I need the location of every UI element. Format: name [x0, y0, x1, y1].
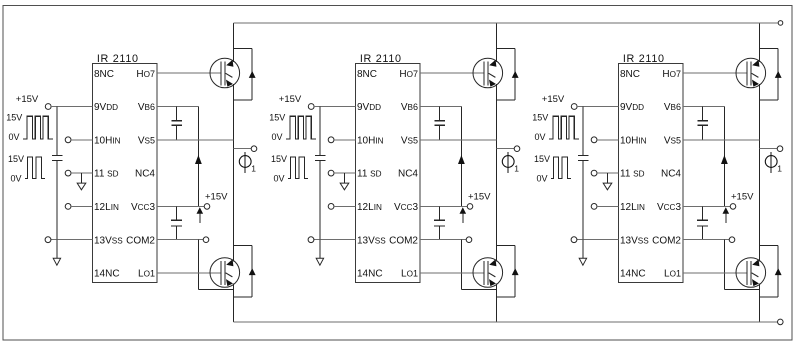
svg-text:12LIN: 12LIN [94, 202, 119, 213]
svg-text:13VSS: 13VSS [620, 235, 649, 246]
svg-text:15V: 15V [8, 154, 24, 164]
pin 11 SD label [620, 169, 645, 180]
pin 1 LO label [664, 269, 681, 280]
svg-text:12LIN: 12LIN [357, 202, 382, 213]
svg-text:VCC3: VCC3 [394, 202, 419, 213]
svg-text:0V: 0V [535, 132, 546, 142]
pin 4 NC label [135, 169, 155, 180]
svg-text:HO7: HO7 [399, 69, 418, 80]
wire emitter to DC- bus [232, 297, 234, 322]
pin 14 NC label [94, 269, 120, 280]
svg-text:8NC: 8NC [620, 69, 640, 80]
svg-text:10HIN: 10HIN [94, 135, 121, 146]
pin 12 LIN label [357, 202, 382, 213]
pin 6 VB label [138, 102, 155, 113]
wire +15V pointer arrow [197, 207, 204, 223]
svg-text:15V: 15V [271, 154, 287, 164]
svg-text:15V: 15V [269, 113, 285, 123]
svg-text:12LIN: 12LIN [620, 202, 645, 213]
wire emitter to phase node [495, 84, 497, 100]
svg-text:15V: 15V [532, 113, 548, 123]
svg-text:0V: 0V [274, 174, 285, 184]
wire VS pin5 to phase node [683, 139, 759, 141]
wire SD pin11 to terminal [65, 170, 92, 176]
wire HO pin7 to high-side gate [420, 72, 484, 74]
wire SD pin11 to terminal [328, 170, 355, 176]
ground (SD tie) [340, 173, 349, 190]
ground (SD tie) [77, 173, 86, 190]
pin 9 VDD label [357, 102, 381, 113]
svg-text:9VDD: 9VDD [94, 102, 118, 113]
capacitor C2b (bootstrap VB-VS) [434, 107, 445, 140]
wire HIN pin10 to terminal [65, 137, 92, 143]
wire emitter to DC- bus [758, 297, 760, 322]
svg-text:0V: 0V [272, 132, 283, 142]
node COM terminal [157, 237, 209, 243]
svg-text:VS5: VS5 [401, 135, 418, 146]
svg-text:VB6: VB6 [138, 102, 155, 113]
svg-text:9VDD: 9VDD [357, 102, 381, 113]
pin 3 VCC label [657, 202, 682, 213]
svg-text:11 SD: 11 SD [620, 169, 645, 180]
pin 6 VB label [664, 102, 681, 113]
svg-text:VB6: VB6 [401, 102, 418, 113]
wire collector to DC+ bus [758, 23, 760, 62]
svg-text:VS5: VS5 [664, 135, 681, 146]
transistor Q1H (high side) [210, 58, 240, 88]
pin 8 NC label [620, 69, 640, 80]
pin 2 COM label [389, 235, 418, 246]
svg-text:LO1: LO1 [664, 269, 681, 280]
wire phase node vertical [758, 100, 760, 258]
node DC- terminal [778, 319, 784, 325]
svg-text:13VSS: 13VSS [94, 235, 123, 246]
LIN input waveform annotation (15V/0V pulses) [8, 154, 45, 184]
wire HIN pin10 to terminal [591, 137, 618, 143]
wire VSS pin13 to terminal [45, 237, 93, 243]
svg-text:0V: 0V [9, 132, 20, 142]
svg-text:11 SD: 11 SD [357, 169, 382, 180]
capacitor C3b (bootstrap VB-VS) [697, 107, 708, 140]
wire emitter to DC- bus [495, 297, 497, 322]
pin 7 HO label [662, 69, 681, 80]
svg-text:HO7: HO7 [662, 69, 681, 80]
svg-text:1: 1 [777, 164, 782, 174]
capacitor C3a (VDD-VSS decoupling) [578, 155, 589, 160]
wire VSS pin13 to terminal [308, 237, 356, 243]
wire HIN pin10 to terminal [328, 137, 355, 143]
node +15V supply terminal (VDD) [542, 94, 577, 110]
svg-text:VB6: VB6 [664, 102, 681, 113]
wire LIN pin12 to terminal [328, 204, 355, 210]
pin 9 VDD label [94, 102, 118, 113]
svg-text:LO1: LO1 [138, 269, 155, 280]
svg-text:COM2: COM2 [652, 235, 681, 246]
wire +15V pointer arrow [723, 207, 730, 223]
pin 6 VB label [401, 102, 418, 113]
transistor Q2H (high side) [473, 58, 503, 88]
svg-text:LO1: LO1 [401, 269, 418, 280]
diode D3b (bootstrap, VCC to VB arrow) [721, 107, 728, 207]
wire low-side emitter [232, 284, 234, 298]
capacitor C2a (VDD-VSS decoupling) [315, 155, 326, 160]
wire LO pin1 to low-side gate [420, 272, 484, 274]
svg-text:VS5: VS5 [138, 135, 155, 146]
wire emitter to phase node [232, 84, 234, 100]
svg-text:14NC: 14NC [94, 269, 120, 280]
wire HO pin7 to high-side gate [683, 72, 747, 74]
wire phase node to low-side collector [495, 246, 497, 262]
circuit phase 3 [532, 23, 783, 322]
node COM terminal [420, 237, 472, 243]
svg-text:0V: 0V [11, 174, 22, 184]
svg-text:+15V: +15V [279, 94, 302, 105]
wire emitter to phase node [758, 84, 760, 100]
pin 3 VCC label [394, 202, 419, 213]
pin 10 HIN label [620, 135, 647, 146]
svg-text:VCC3: VCC3 [657, 202, 682, 213]
wire VB pin6 [420, 106, 461, 108]
IC U2 (IR 2110 gate driver) [356, 53, 420, 282]
pin 8 NC label [94, 69, 114, 80]
node VCC +15V terminal [157, 191, 228, 209]
pin 14 NC label [620, 269, 646, 280]
pin 12 LIN label [620, 202, 645, 213]
svg-text:NC4: NC4 [135, 169, 155, 180]
wire VSS pin13 to terminal [571, 237, 619, 243]
ground (VSS) [316, 240, 323, 266]
wire COM to low-side emitter [724, 240, 759, 290]
svg-text:VCC3: VCC3 [131, 202, 156, 213]
wire LIN pin12 to terminal [591, 204, 618, 210]
circuit phase 1 [6, 23, 257, 322]
capacitor C1a (VDD-VSS decoupling) [52, 155, 63, 160]
pin 10 HIN label [94, 135, 121, 146]
svg-text:+15V: +15V [468, 191, 491, 202]
wire phase node to low-side collector [232, 246, 234, 262]
diode D3H (free-wheeling, up arrow) [759, 48, 781, 100]
wire collector to DC+ bus [495, 23, 497, 62]
wire collector to DC+ bus [232, 23, 234, 62]
node phase output terminal [496, 146, 519, 152]
diode D1H (free-wheeling, up arrow) [233, 48, 255, 100]
wire COM to low-side emitter [461, 240, 496, 290]
wire VDD pin9 to +15V terminal [51, 106, 93, 108]
pin 2 COM label [126, 235, 155, 246]
svg-text:13VSS: 13VSS [357, 235, 386, 246]
pin 2 COM label [652, 235, 681, 246]
node phase label PHI1 [765, 152, 782, 174]
IC U1 (IR 2110 gate driver) [93, 53, 157, 282]
wire VDD pin9 to +15V terminal [577, 106, 619, 108]
wire LO pin1 to low-side gate [157, 272, 221, 274]
wire VDD junction down to capacitor [319, 107, 321, 156]
pin 10 HIN label [357, 135, 384, 146]
svg-text:9VDD: 9VDD [620, 102, 644, 113]
wire low-side emitter [758, 284, 760, 298]
svg-text:IR 2110: IR 2110 [623, 53, 665, 65]
node DC+ terminal [778, 21, 783, 26]
node COM terminal [683, 237, 735, 243]
wire capacitor to VSS row [56, 160, 58, 239]
pin 1 LO label [138, 269, 155, 280]
svg-text:+15V: +15V [731, 191, 754, 202]
svg-text:IR 2110: IR 2110 [360, 53, 402, 65]
svg-text:HO7: HO7 [136, 69, 155, 80]
pin 5 VS label [401, 135, 418, 146]
svg-text:8NC: 8NC [357, 69, 377, 80]
pin 5 VS label [664, 135, 681, 146]
wire LO pin1 to low-side gate [683, 272, 747, 274]
transistor Q3H (high side) [736, 58, 766, 88]
svg-text:IR 2110: IR 2110 [97, 53, 139, 65]
node phase label PHI1 [239, 152, 256, 174]
transistor Q2L (low side) [473, 258, 503, 288]
node phase output terminal [759, 146, 782, 152]
svg-text:11 SD: 11 SD [94, 169, 119, 180]
diode D2H (free-wheeling, up arrow) [496, 48, 518, 100]
diode D1b (bootstrap, VCC to VB arrow) [195, 107, 202, 207]
wire VS pin5 to phase node [420, 139, 496, 141]
wire VDD pin9 to +15V terminal [314, 106, 356, 108]
capacitor C2c (VCC-COM decoupling) [434, 206, 445, 239]
diode D1L (free-wheeling, up arrow) [233, 246, 255, 298]
wire VB pin6 [157, 106, 198, 108]
diode D3L (free-wheeling, up arrow) [759, 246, 781, 298]
HIN input waveform annotation (15V/0V pulses) [6, 113, 53, 143]
node phase output terminal [233, 146, 256, 152]
pin 11 SD label [357, 169, 382, 180]
wire low-side emitter [495, 284, 497, 298]
pin 7 HO label [136, 69, 155, 80]
pin 1 LO label [401, 269, 418, 280]
wire VB pin6 [683, 106, 724, 108]
IC U3 (IR 2110 gate driver) [619, 53, 683, 282]
svg-text:8NC: 8NC [94, 69, 114, 80]
svg-text:+15V: +15V [542, 94, 565, 105]
svg-text:0V: 0V [537, 174, 548, 184]
svg-text:15V: 15V [6, 113, 22, 123]
pin 5 VS label [138, 135, 155, 146]
pin 11 SD label [94, 169, 119, 180]
pin 13 VSS label [94, 235, 123, 246]
wire VS pin5 to phase node [157, 139, 233, 141]
svg-text:10HIN: 10HIN [620, 135, 647, 146]
wire DC- bottom bus [233, 321, 777, 323]
node VCC +15V terminal [683, 191, 754, 209]
LIN input waveform annotation (15V/0V pulses) [271, 154, 308, 184]
wire VDD junction down to capacitor [56, 107, 58, 156]
svg-text:+15V: +15V [205, 191, 228, 202]
pin 13 VSS label [357, 235, 386, 246]
wire capacitor to VSS row [319, 160, 321, 239]
svg-text:+15V: +15V [16, 94, 39, 105]
node VCC +15V terminal [420, 191, 491, 209]
LIN input waveform annotation (15V/0V pulses) [534, 154, 571, 184]
svg-text:1: 1 [514, 164, 519, 174]
svg-text:COM2: COM2 [126, 235, 155, 246]
node +15V supply terminal (VDD) [16, 94, 51, 110]
svg-text:14NC: 14NC [620, 269, 646, 280]
node phase label PHI1 [502, 152, 519, 174]
ground (VSS) [579, 240, 586, 266]
wire phase node vertical [495, 100, 497, 258]
HIN input waveform annotation (15V/0V pulses) [269, 113, 316, 143]
pin 3 VCC label [131, 202, 156, 213]
ground (VSS) [53, 240, 60, 266]
pin 12 LIN label [94, 202, 119, 213]
wire phase node vertical [232, 100, 234, 258]
svg-text:NC4: NC4 [398, 169, 418, 180]
diode D2L (free-wheeling, up arrow) [496, 246, 518, 298]
wire +15V pointer arrow [460, 207, 467, 223]
node +15V supply terminal (VDD) [279, 94, 314, 110]
svg-text:NC4: NC4 [661, 169, 681, 180]
transistor Q3L (low side) [736, 258, 766, 288]
wire phase node to low-side collector [758, 246, 760, 262]
svg-text:15V: 15V [534, 154, 550, 164]
wire HO pin7 to high-side gate [157, 72, 221, 74]
capacitor C3c (VCC-COM decoupling) [697, 206, 708, 239]
pin 4 NC label [398, 169, 418, 180]
svg-text:1: 1 [251, 164, 256, 174]
wire SD pin11 to terminal [591, 170, 618, 176]
ground (SD tie) [603, 173, 612, 190]
wire VDD junction down to capacitor [582, 107, 584, 156]
pin 8 NC label [357, 69, 377, 80]
pin 9 VDD label [620, 102, 644, 113]
pin 7 HO label [399, 69, 418, 80]
svg-text:10HIN: 10HIN [357, 135, 384, 146]
wire capacitor to VSS row [582, 160, 584, 239]
circuit phase 2 [269, 23, 520, 322]
svg-text:14NC: 14NC [357, 269, 383, 280]
capacitor C1b (bootstrap VB-VS) [171, 107, 182, 140]
wire COM to low-side emitter [198, 240, 233, 290]
pin 13 VSS label [620, 235, 649, 246]
diode D2b (bootstrap, VCC to VB arrow) [458, 107, 465, 207]
pin 14 NC label [357, 269, 383, 280]
svg-text:COM2: COM2 [389, 235, 418, 246]
capacitor C1c (VCC-COM decoupling) [171, 206, 182, 239]
wire LIN pin12 to terminal [65, 204, 92, 210]
wire DC+ top bus [233, 22, 778, 24]
transistor Q1L (low side) [210, 258, 240, 288]
HIN input waveform annotation (15V/0V pulses) [532, 113, 579, 143]
pin 4 NC label [661, 169, 681, 180]
